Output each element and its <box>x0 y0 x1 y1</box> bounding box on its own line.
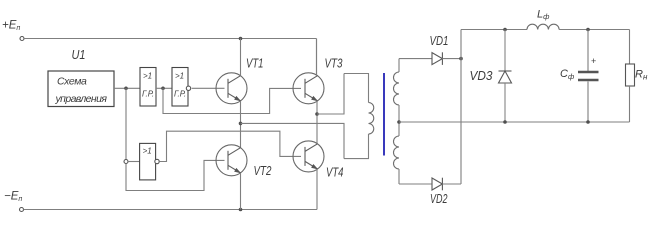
logic gate D3 (>1) <box>140 143 156 180</box>
junction U1 output node <box>124 87 128 91</box>
junction VD1 at rectifier vertical <box>459 57 463 61</box>
svg-text:−Eп: −Eп <box>4 191 22 204</box>
wire VT1 collector <box>240 39 242 76</box>
wire secondary bottom to VD2 <box>399 183 432 185</box>
junction node A <box>239 122 243 126</box>
wire output top rail with Lf gap <box>461 29 527 31</box>
wire VT3 collector <box>316 39 318 76</box>
svg-text:Г.Р.: Г.Р. <box>142 90 154 99</box>
wire secondary top to VD1 <box>399 58 432 60</box>
svg-text:управления: управления <box>55 93 108 105</box>
wire VD2 cathode to rectifier vertical <box>442 183 461 185</box>
resistor Rn <box>626 30 635 123</box>
svg-text:>1: >1 <box>143 147 152 156</box>
junction Cf bottom <box>586 120 590 124</box>
wire VT1 emitter to node A and VT2 collector <box>240 101 242 148</box>
transistor VT4 <box>293 141 324 172</box>
transistor VT3 <box>293 73 324 104</box>
wire +Ep top rail <box>24 38 317 40</box>
inversion bubble gate D3 output <box>155 159 159 163</box>
wire gate D3 output to VT4 base <box>159 131 301 161</box>
svg-text:VT4: VT4 <box>326 166 344 180</box>
wire Lf to output <box>559 29 629 31</box>
diode VD1 <box>432 52 442 65</box>
logic gate D1 (>1 / Г.Р.) <box>140 68 156 107</box>
wire output bottom rail (center tap return) <box>399 121 630 123</box>
junction VT1 collector to +Ep rail <box>239 37 243 41</box>
diode VD2 <box>432 178 442 191</box>
svg-text:VT1: VT1 <box>246 57 264 71</box>
svg-text:Lф: Lф <box>537 9 550 22</box>
junction between gates <box>161 87 165 91</box>
svg-text:Схема: Схема <box>57 76 87 88</box>
junction gate D3 input tap <box>124 160 128 164</box>
wire VT3 collector drop <box>316 39 318 77</box>
transformer T1 primary winding <box>344 74 369 103</box>
diode VD3 <box>499 30 512 123</box>
junction VT2 emitter to -Ep rail <box>239 208 243 212</box>
wire VT3 emitter to node B and VT4 collector <box>316 101 318 144</box>
wire gate D1 to gate D2 <box>156 87 172 89</box>
svg-text:VD2: VD2 <box>430 192 448 206</box>
wire VT4 emitter to -Ep rail <box>316 169 318 210</box>
wire U1 node down the left control path <box>126 88 225 190</box>
svg-text:>1: >1 <box>175 72 184 81</box>
logic gate D2 (>1 / Г.Р.) <box>172 68 188 107</box>
transformer T1 secondary winding (bottom half) <box>394 136 400 169</box>
control unit U1 box <box>48 71 114 107</box>
wire node A to primary bottom terminal <box>241 123 345 158</box>
svg-text:Г.Р.: Г.Р. <box>174 90 186 99</box>
svg-text:Rн: Rн <box>635 69 648 82</box>
transistor VT2 <box>216 145 247 176</box>
wire VD1 cathode to rectifier node <box>442 58 461 60</box>
svg-text:+Eп: +Eп <box>2 20 20 33</box>
junction center tap <box>397 120 401 124</box>
junction Cf top <box>586 28 590 32</box>
wire node B to primary top terminal <box>317 74 344 115</box>
junction node B <box>315 112 319 116</box>
junction VD3 bottom <box>503 120 507 124</box>
wire VT2 emitter to -Ep rail <box>240 173 242 210</box>
wire -Ep bottom rail <box>24 209 318 211</box>
transformer core <box>383 73 385 156</box>
svg-text:U1: U1 <box>72 48 86 62</box>
wire gate junction to VT3 base <box>163 88 301 113</box>
+Ep terminal <box>20 37 24 41</box>
svg-text:VT3: VT3 <box>325 57 343 71</box>
wire gate D2 to VT1 base <box>192 87 225 89</box>
wire U1 output <box>114 87 140 89</box>
svg-text:Cф: Cф <box>560 68 575 81</box>
wire tap to gate D3 <box>128 161 140 163</box>
transistor VT1 <box>216 73 247 104</box>
inductor Lf <box>527 24 559 29</box>
capacitor Cf <box>578 30 599 123</box>
transformer T1 secondary winding (top half) <box>398 59 400 72</box>
svg-text:>1: >1 <box>143 72 152 81</box>
svg-text:VD3: VD3 <box>470 69 493 83</box>
-Ep terminal <box>20 208 24 212</box>
svg-text:+: + <box>591 56 596 66</box>
svg-text:VT2: VT2 <box>254 164 272 178</box>
transformer T1 secondary straight and center tap <box>398 105 400 136</box>
svg-text:VD1: VD1 <box>430 34 449 48</box>
junction VD3 top <box>503 28 507 32</box>
wire rectifier cathode vertical <box>460 30 462 185</box>
inversion bubble gate D2 output <box>186 86 190 90</box>
